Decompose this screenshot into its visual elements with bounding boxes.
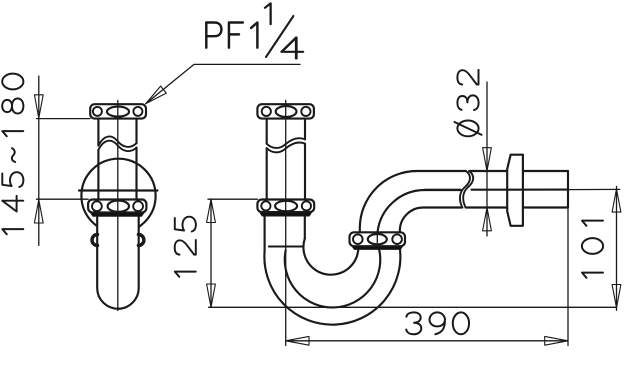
- right middle flange lower washer band: [260, 212, 312, 216]
- left view: upper pipe wall right: [135, 119, 137, 200]
- riser flange hole middle: [368, 234, 387, 244]
- right view: upper pipe wall right: [304, 119, 306, 200]
- left top flange hole right: [133, 107, 142, 116]
- left top flange hole left: [93, 107, 102, 116]
- riser flange hole left: [353, 234, 363, 244]
- left middle flange hole right: [133, 201, 143, 211]
- dimension 145~180 arrow bottom: [34, 200, 43, 223]
- left middle flange lower washer band: [91, 213, 145, 217]
- left top flange hole middle: [107, 107, 129, 117]
- right middle flange hole left: [261, 201, 270, 210]
- right view: inlet joint seam: [269, 246, 303, 248]
- elbow middle seam arc: [378, 190, 461, 232]
- left view: ball seam line: [79, 189, 158, 191]
- left middle flange hole middle: [108, 201, 129, 212]
- right view: upper pipe wall left: [266, 119, 268, 200]
- right middle flange hole middle: [275, 201, 297, 211]
- dimension text 125: [175, 217, 196, 277]
- outlet pipe end cap: [567, 171, 569, 208]
- right top flange hole middle: [276, 106, 297, 117]
- union nut flange on riser: [350, 232, 406, 246]
- dimension 390 arrow left: [286, 336, 309, 345]
- U-bend middle seam arc: [285, 247, 380, 308]
- 390 right extension line: [567, 208, 569, 346]
- left view: trap ball body: [81, 159, 155, 233]
- dimension text 101: [582, 221, 603, 278]
- riser short centerline: [376, 232, 378, 246]
- right view: trap inlet wall right below flange: [304, 217, 306, 239]
- dimension 145~180 dimension line: [38, 76, 40, 245]
- dimension 101 arrow bottom: [612, 285, 621, 308]
- dimension 145~180 extension line bottom: [37, 198, 89, 200]
- dimension 145~180 arrow top: [34, 95, 43, 118]
- dimension 125 dimension line: [210, 199, 212, 307]
- outlet pipe bottom wall: [466, 206, 568, 208]
- wall escutcheon flange: [507, 155, 523, 226]
- elbow inner wall arc: [400, 208, 463, 233]
- vertical centerline of trap inlet (390 left extension): [285, 100, 287, 345]
- outlet pipe break squiggle: [460, 171, 473, 208]
- bottom tangent extension line: [209, 306, 617, 308]
- leader arrowhead: [146, 86, 167, 104]
- right view: pipe break squiggle: [267, 138, 305, 152]
- left tailpiece clip tab left: [92, 235, 97, 246]
- left middle flange hole left: [92, 201, 102, 211]
- dimension text O32: [455, 70, 482, 136]
- dimension 125 extension line top: [208, 198, 257, 200]
- dimension 390 arrow right: [545, 336, 568, 345]
- dimension 101 dimension line: [616, 187, 618, 311]
- left view: pipe break squiggle: [98, 136, 136, 151]
- left view: tailpiece tube: [97, 214, 139, 309]
- dimension 125 arrow top: [207, 199, 216, 222]
- dimension O32 dimension line: [486, 82, 488, 236]
- right top flange hole left: [262, 107, 271, 116]
- right view: top flange: [257, 104, 314, 118]
- elbow outer wall arc: [360, 171, 466, 232]
- left tailpiece clip tab right: [138, 235, 144, 246]
- left view: top wall flange: [90, 104, 146, 118]
- label PF1 1/4: [206, 3, 303, 58]
- U-bend outer wall arc: [264, 246, 400, 324]
- riser flange hole right: [392, 234, 402, 244]
- dimension 125 arrow bottom: [207, 284, 216, 307]
- dimension 145~180 extension line top: [37, 118, 91, 120]
- outlet pipe middle seam line: [425, 189, 568, 191]
- riser flange lower washer band: [352, 246, 403, 249]
- dimension 101 arrow top: [612, 189, 621, 212]
- left view: upper pipe wall left: [97, 119, 99, 200]
- outlet pipe top wall: [469, 170, 568, 172]
- right middle flange hole right: [302, 201, 311, 210]
- right top flange hole right: [301, 107, 310, 116]
- dimension O32 arrow bottom: [483, 208, 492, 231]
- dimension text 390: [406, 312, 469, 334]
- right view: trap inlet wall left below flange: [264, 217, 266, 252]
- right view: middle flange nut: [257, 200, 314, 213]
- outlet pipe centerline extension to 101 dimension: [568, 188, 620, 190]
- wire: leader line of PF1 1/4 label: [146, 64, 300, 103]
- U-bend inner wall arc: [303, 239, 358, 275]
- dimension O32 arrow top: [483, 148, 492, 171]
- dimension text 145~180: [2, 74, 23, 235]
- left view: middle flange nut: [88, 200, 146, 213]
- dimension 390 dimension line: [286, 340, 568, 342]
- left view: vertical centerline: [117, 100, 119, 310]
